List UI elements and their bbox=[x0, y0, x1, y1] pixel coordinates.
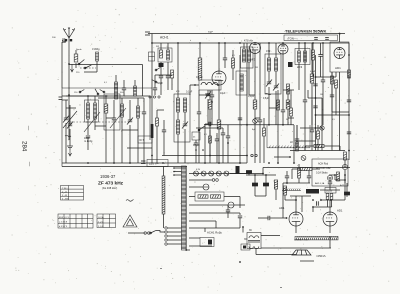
wire y196 drop b bbox=[301, 196, 303, 212]
wire R14 down bbox=[284, 195, 286, 200]
wire link y115 bbox=[316, 114, 350, 116]
terminal T1 sel tap 5 bbox=[165, 243, 167, 245]
switch wafer contacts bbox=[149, 96, 160, 98]
wire C34 up bbox=[329, 177, 331, 182]
trimmer C37 under coupling bbox=[205, 92, 211, 99]
terminal tuning box bbox=[59, 97, 63, 100]
wire T1 sel tap 5 bbox=[168, 243, 182, 245]
wire coil L10 out bbox=[218, 84, 219, 86]
tube AB1 indicator bbox=[334, 48, 345, 59]
node j24 bbox=[151, 155, 153, 157]
resistor R14 grid leak bbox=[283, 186, 286, 195]
node j12 bbox=[277, 162, 279, 164]
wire C42 tail bbox=[227, 143, 229, 163]
switch S1 band a bbox=[78, 60, 84, 65]
capacitor C45 electrolytic bbox=[344, 192, 349, 197]
capacitor C22 bbox=[238, 118, 242, 120]
wire cluster link bbox=[196, 127, 223, 129]
wire C46 down bbox=[308, 178, 310, 183]
tube AZ11 rectifier bbox=[323, 212, 337, 226]
node j16 bbox=[344, 174, 346, 176]
resistor R30 bbox=[232, 58, 235, 68]
wire under speaker bbox=[300, 260, 314, 262]
svg-text:2 –G: 2 –G bbox=[62, 191, 67, 193]
wire secondary 7 bbox=[189, 237, 200, 239]
box mains label bbox=[147, 160, 168, 167]
svg-text:ACH Rod: ACH Rod bbox=[318, 163, 329, 166]
wire tuning box top bbox=[62, 95, 150, 97]
wire AF bus bbox=[263, 167, 350, 169]
coil L15 IFT0 secondary bbox=[247, 49, 250, 62]
wire link y98 bbox=[308, 97, 322, 99]
wire L1 down bbox=[96, 61, 98, 72]
wire C44 up bbox=[296, 125, 298, 139]
wire R18 down bbox=[290, 116, 292, 125]
wire C19 down bbox=[254, 188, 256, 196]
node f4 bbox=[162, 162, 164, 164]
wire secondary 2 bbox=[189, 179, 212, 181]
node L10 right bbox=[217, 84, 219, 86]
capacitor C17 bbox=[321, 80, 325, 82]
wire R29 up bbox=[199, 43, 201, 58]
wire L5 down bbox=[137, 118, 139, 163]
wire R27 left bbox=[292, 168, 300, 170]
wire antenna cap out bbox=[65, 40, 67, 42]
wire F2 out bbox=[234, 204, 245, 206]
trimmer arrow long3 bbox=[63, 111, 77, 128]
node j26 bbox=[262, 173, 264, 175]
node ift3 b bbox=[312, 42, 314, 44]
capacitor C48 right rail bbox=[347, 132, 351, 134]
capacitor C24 bbox=[310, 130, 314, 132]
wire output bus bbox=[256, 254, 296, 256]
wire R4 down bbox=[218, 129, 220, 163]
wire sec bottom link bbox=[205, 227, 240, 229]
wire C21 left bbox=[258, 217, 268, 219]
wire y196 psu bbox=[290, 195, 311, 197]
coil L17 osc can bbox=[240, 74, 243, 91]
node rail349 a bbox=[348, 76, 350, 78]
wire T1 sel tap 1 bbox=[168, 227, 182, 229]
trimmer C15 IFT2 bbox=[273, 84, 279, 91]
wire mains lead bbox=[128, 232, 144, 234]
capacitor C11 cathode bbox=[209, 122, 211, 126]
capacitor C31 electrolytic heater bbox=[246, 171, 251, 176]
node j25 bbox=[246, 155, 248, 157]
wire stub x336 bbox=[335, 72, 337, 77]
wire C19 up bbox=[254, 175, 256, 183]
wire L4 up bbox=[121, 98, 123, 104]
svg-text:2M: 2M bbox=[255, 67, 258, 69]
wire link d bbox=[288, 117, 294, 119]
wire C53 down bbox=[123, 90, 125, 96]
wire R5 up bbox=[209, 90, 211, 100]
node C42 bbox=[227, 142, 229, 144]
wire R2 up bbox=[105, 96, 107, 104]
wire sec4 drop bbox=[239, 213, 241, 215]
capacitor C35 bbox=[162, 130, 166, 132]
trimmer arrow long1 bbox=[84, 112, 100, 132]
node mixer top bbox=[218, 42, 220, 44]
node f5 bbox=[129, 162, 131, 164]
squiggle mid bbox=[265, 93, 271, 95]
wire R19 up bbox=[317, 125, 319, 131]
wire L5 up bbox=[137, 98, 139, 106]
node rail315 a bbox=[315, 76, 317, 78]
wire C37 down bbox=[207, 99, 209, 124]
symbol alignment triangle bbox=[123, 215, 137, 227]
wire L20 up bbox=[115, 75, 117, 82]
wire C17 down bbox=[322, 82, 324, 125]
meter M1 bbox=[342, 164, 347, 169]
svg-text:3 Wdg: 3 Wdg bbox=[92, 47, 100, 51]
node bias mid bbox=[312, 206, 314, 208]
wire C50 down bbox=[216, 141, 218, 163]
svg-text:AF3: AF3 bbox=[297, 65, 303, 69]
wire R10 left bbox=[305, 145, 314, 147]
svg-text:ACH1: ACH1 bbox=[160, 36, 169, 40]
wire L12 up bbox=[275, 43, 277, 58]
capacitor C19 electrolytic bbox=[252, 183, 257, 188]
capacitor C51 bbox=[221, 133, 225, 135]
wire AZ11 top link bbox=[320, 199, 345, 201]
wire HT riser bbox=[344, 175, 346, 200]
switch S9 bbox=[95, 89, 99, 95]
node j19 bbox=[312, 199, 314, 201]
capacitor C5 bbox=[112, 118, 116, 120]
svg-text:TELEFUNKEN 565WK: TELEFUNKEN 565WK bbox=[285, 29, 326, 34]
capacitor C16 bbox=[303, 100, 307, 102]
node rail349 b bbox=[348, 114, 350, 116]
wire R pair bot bbox=[313, 206, 332, 208]
resistor R5 screen bbox=[208, 100, 212, 109]
wire C49 down bbox=[195, 145, 197, 163]
wire C7 up bbox=[143, 98, 145, 112]
box osc coil can bbox=[236, 71, 247, 95]
wire antenna cap stub bbox=[62, 40, 63, 42]
wire C10 down bbox=[184, 129, 186, 163]
node cl b bbox=[202, 149, 204, 151]
node y157 bbox=[289, 156, 291, 158]
coil L19 IFT3 b bbox=[304, 51, 307, 62]
node rail315 c bbox=[315, 114, 317, 116]
node j7 bbox=[322, 42, 324, 44]
wire C20 up bbox=[265, 175, 267, 183]
wire C30 down bbox=[227, 212, 229, 218]
wire L14 up bbox=[243, 43, 245, 49]
wire L18 down bbox=[298, 62, 300, 90]
wire C34 down bbox=[329, 184, 331, 190]
node j18 bbox=[330, 199, 332, 201]
coil L20 antenna input bbox=[114, 82, 117, 99]
capacitor C32 grid2 bbox=[317, 201, 319, 205]
wire x340 col bbox=[339, 146, 341, 151]
wire L2 bottom bbox=[87, 119, 89, 135]
node rail349 d bbox=[348, 150, 350, 152]
wire mains to transformer bbox=[156, 231, 165, 233]
wire R13 down bbox=[275, 189, 277, 200]
resistor R9 bbox=[331, 76, 334, 84]
terminal pair sec2 bbox=[212, 179, 218, 182]
svg-text:473: 473 bbox=[266, 49, 271, 53]
wire C21 right bbox=[270, 217, 287, 219]
capacitor C8 osc bbox=[159, 76, 163, 78]
wire link b bbox=[255, 117, 260, 119]
svg-text:≈2501Λ: ≈2501Λ bbox=[316, 254, 326, 258]
svg-text:POTT: POTT bbox=[327, 191, 333, 193]
resistor R12 line dropper bbox=[162, 176, 165, 214]
coil L5 LW bbox=[137, 106, 140, 118]
capacitor C44 to shield bbox=[295, 139, 299, 141]
wire R3 up bbox=[160, 43, 162, 50]
wire left aux top bbox=[62, 41, 66, 43]
wire filter in bbox=[189, 196, 195, 198]
capacitor C46 bbox=[307, 176, 311, 178]
wire C20 down bbox=[265, 188, 267, 196]
coil L6 osc bbox=[167, 50, 170, 60]
capacitor C28 bbox=[313, 106, 317, 108]
node r23 bbox=[287, 102, 289, 104]
svg-text:1936-37: 1936-37 bbox=[100, 174, 116, 179]
wire C41 tail bbox=[211, 102, 213, 125]
svg-text:a 2 4 6 8: a 2 4 6 8 bbox=[59, 222, 68, 224]
resistor R11 bbox=[344, 152, 347, 160]
box POTT bbox=[325, 188, 336, 194]
wire link c bbox=[269, 107, 276, 109]
svg-text:50pF: 50pF bbox=[208, 32, 214, 34]
svg-text:50pF: 50pF bbox=[157, 81, 163, 85]
shield line hatched bbox=[267, 125, 310, 148]
wire R11 down bbox=[344, 160, 346, 168]
wire R10 right bbox=[324, 145, 340, 147]
capacitor C36 bbox=[223, 58, 227, 60]
dashed mech coupling bbox=[80, 67, 96, 69]
terminal antenna base bbox=[65, 39, 67, 41]
wire R24 down bbox=[171, 78, 173, 90]
wire sec5 drop bbox=[215, 221, 217, 228]
speaker LS1 bbox=[292, 250, 311, 255]
wire det cols top bbox=[204, 124, 294, 126]
resistor R16 bbox=[330, 194, 333, 200]
resistor R22 bbox=[335, 80, 338, 88]
wire AB2 down bbox=[282, 54, 284, 90]
mark squiggle bbox=[126, 200, 134, 202]
wire C5 up bbox=[113, 100, 115, 118]
wire C53 up bbox=[123, 80, 125, 88]
wire R27 drop left bbox=[291, 169, 293, 179]
wire R7 up bbox=[287, 90, 289, 100]
wire heater drop bbox=[262, 168, 264, 174]
wire stub 335 bbox=[334, 175, 336, 180]
wire C11 down bbox=[204, 124, 206, 163]
wire R22 down bbox=[335, 88, 337, 115]
table voltages A bbox=[58, 214, 93, 228]
switch S7 osc bbox=[152, 80, 157, 83]
node j23 bbox=[105, 95, 107, 97]
resistor R35 bbox=[209, 136, 212, 143]
svg-text:—: — bbox=[27, 126, 32, 131]
svg-text:284: 284 bbox=[21, 141, 28, 152]
capacitor C7 bbox=[142, 112, 146, 114]
node cl c bbox=[209, 155, 211, 157]
terminal T1 sel tap 3 bbox=[165, 235, 167, 237]
tube ACH1 mixer bbox=[212, 71, 226, 85]
wire IF rail bbox=[246, 43, 248, 163]
wire link y77 bbox=[316, 76, 337, 78]
wire R31 down bbox=[312, 60, 314, 77]
lamp scale bbox=[320, 126, 324, 130]
capacitor C1 antenna series bbox=[63, 38, 65, 42]
resistor R6 bbox=[253, 100, 257, 109]
terminal mains top bbox=[145, 32, 150, 35]
capacitor C9 osc bbox=[166, 76, 170, 78]
capacitor C25 on HT rail bbox=[347, 100, 351, 102]
wire L18 up bbox=[298, 43, 300, 51]
wire AB1 up bbox=[339, 34, 341, 43]
wire R1 bottom bbox=[75, 63, 77, 68]
svg-text:0,1μF: 0,1μF bbox=[248, 95, 255, 98]
wire C26 down bbox=[331, 97, 333, 112]
capacitor C12 bbox=[197, 112, 201, 114]
box wave filter bbox=[192, 132, 200, 140]
trimmer arrow long2 bbox=[110, 108, 126, 128]
svg-text:‹TON—›: ‹TON—› bbox=[287, 36, 298, 40]
svg-text:Spule: Spule bbox=[76, 49, 82, 51]
wire C51 down bbox=[222, 135, 224, 163]
terminal mains mid bbox=[141, 161, 146, 164]
terminal T1 sel tap 1 bbox=[165, 227, 167, 229]
node j22 bbox=[87, 95, 89, 97]
wire cluster y180 bbox=[335, 179, 345, 181]
coil L21 bbox=[134, 86, 137, 96]
wire R5 down bbox=[209, 109, 211, 163]
node j10 bbox=[204, 162, 206, 164]
svg-text:AD1 AZ1 AB2: AD1 AZ1 AB2 bbox=[316, 167, 331, 170]
resistor R23 wavy bbox=[287, 84, 290, 94]
svg-text:U-RUNDF 220V≈: U-RUNDF 220V≈ bbox=[294, 239, 310, 241]
switch S4 wave bbox=[100, 90, 105, 93]
wire transformer core bbox=[185, 166, 187, 250]
wire column x240 bbox=[239, 55, 241, 163]
svg-text:Dr.T: Dr.T bbox=[140, 139, 145, 142]
svg-text:ZF 473 kHz: ZF 473 kHz bbox=[98, 181, 124, 187]
coil L2 oscillator bbox=[87, 103, 90, 119]
wire R8 down bbox=[311, 83, 313, 125]
node S8 bbox=[198, 129, 200, 131]
terminal T1 sel tap 2 bbox=[165, 231, 167, 233]
wire AL4 anode bbox=[295, 200, 297, 212]
wire R33 down bbox=[298, 178, 300, 183]
capacitor C49 bbox=[194, 143, 198, 145]
wire T1 top tap 2 bbox=[174, 171, 181, 173]
paper speckle dark bbox=[45, 14, 379, 280]
resistor R34 in box bbox=[337, 172, 340, 181]
wire C17 up bbox=[322, 43, 324, 80]
capacitor C52 dark elco bbox=[236, 166, 240, 174]
wire secondary 4 bbox=[189, 212, 240, 214]
wire cluster y175 bbox=[329, 174, 335, 176]
tube AL4 output bbox=[289, 212, 303, 226]
capacitor C4 padding bbox=[86, 136, 90, 138]
wire L15 link bbox=[249, 94, 255, 96]
coil L4 BC bbox=[121, 104, 124, 117]
resistor R13 bleeder bbox=[274, 180, 277, 189]
capacitor C50 bbox=[215, 139, 219, 141]
resistor R28 bbox=[156, 118, 159, 126]
node f6 bbox=[113, 162, 115, 164]
svg-text:AB2 0,1A: AB2 0,1A bbox=[315, 182, 325, 185]
svg-text:—: — bbox=[27, 162, 32, 167]
wire C41 up bbox=[211, 90, 213, 95]
wire bias drop bbox=[312, 207, 314, 212]
wire C6 up bbox=[129, 100, 131, 120]
wire filter out bbox=[224, 196, 240, 198]
node terminal pair bbox=[251, 154, 257, 156]
wire bar bottom stub bbox=[186, 249, 190, 251]
wire L21 up bbox=[134, 80, 136, 86]
node T3 top bbox=[242, 226, 244, 228]
wire y196 drop a bbox=[295, 196, 297, 200]
wire AF3 cathode chain bbox=[254, 54, 256, 101]
capacitor C21 coupling bbox=[268, 216, 270, 220]
wire C24 down bbox=[311, 132, 313, 151]
wire T3 to AL4 bbox=[261, 235, 280, 237]
capacitor C47 dark blob bbox=[288, 62, 293, 67]
wire second bus bbox=[152, 42, 349, 44]
resistor R10 field bbox=[314, 144, 324, 147]
node C41 bbox=[211, 101, 213, 103]
box L4 L5 shield bbox=[104, 94, 120, 130]
capacitor C13 bbox=[258, 120, 262, 122]
box heater table bbox=[312, 159, 348, 186]
node j14 bbox=[254, 174, 256, 176]
wire osc link2 bbox=[157, 109, 164, 111]
capacitor C39 between buses bbox=[314, 38, 318, 40]
tube AF3 IF amp bbox=[250, 43, 261, 54]
mark dark column x152 bbox=[151, 124, 154, 138]
wire L4 down bbox=[121, 117, 123, 163]
wire left aux rail bbox=[61, 42, 63, 88]
wire secondary 8 bbox=[189, 245, 212, 247]
node psu a bbox=[286, 182, 288, 184]
wire C3 up bbox=[69, 105, 71, 124]
wire link y141 bbox=[296, 140, 316, 142]
capacitor C38 bbox=[318, 55, 322, 57]
coil L12 IFT2 secondary bbox=[274, 58, 277, 71]
node j28 bbox=[286, 217, 288, 219]
wire L15 down bbox=[248, 62, 250, 95]
node j20 bbox=[320, 199, 322, 201]
wire L6 down bbox=[167, 62, 169, 75]
terminal T1 sel tap 4 bbox=[165, 239, 167, 241]
wire C51 up bbox=[222, 128, 224, 133]
wire rail278 up bbox=[277, 90, 279, 125]
wire C8 down bbox=[160, 78, 162, 95]
capacitor C29 bbox=[153, 88, 157, 90]
wire C13 down bbox=[259, 122, 261, 163]
wire F2 feed bbox=[189, 204, 228, 206]
wire R8 up bbox=[311, 43, 313, 74]
antenna A1 bbox=[63, 27, 74, 50]
coil L1 antenna bbox=[96, 52, 99, 61]
wire R7 top link bbox=[283, 89, 294, 91]
trimmer C2 bbox=[63, 116, 69, 123]
fuse F2 bbox=[228, 202, 234, 208]
svg-text:473 kHz: 473 kHz bbox=[244, 40, 254, 43]
wire L19 up bbox=[304, 43, 306, 51]
wire output bus drop a bbox=[255, 248, 257, 255]
svg-text:10μF: 10μF bbox=[220, 92, 226, 95]
